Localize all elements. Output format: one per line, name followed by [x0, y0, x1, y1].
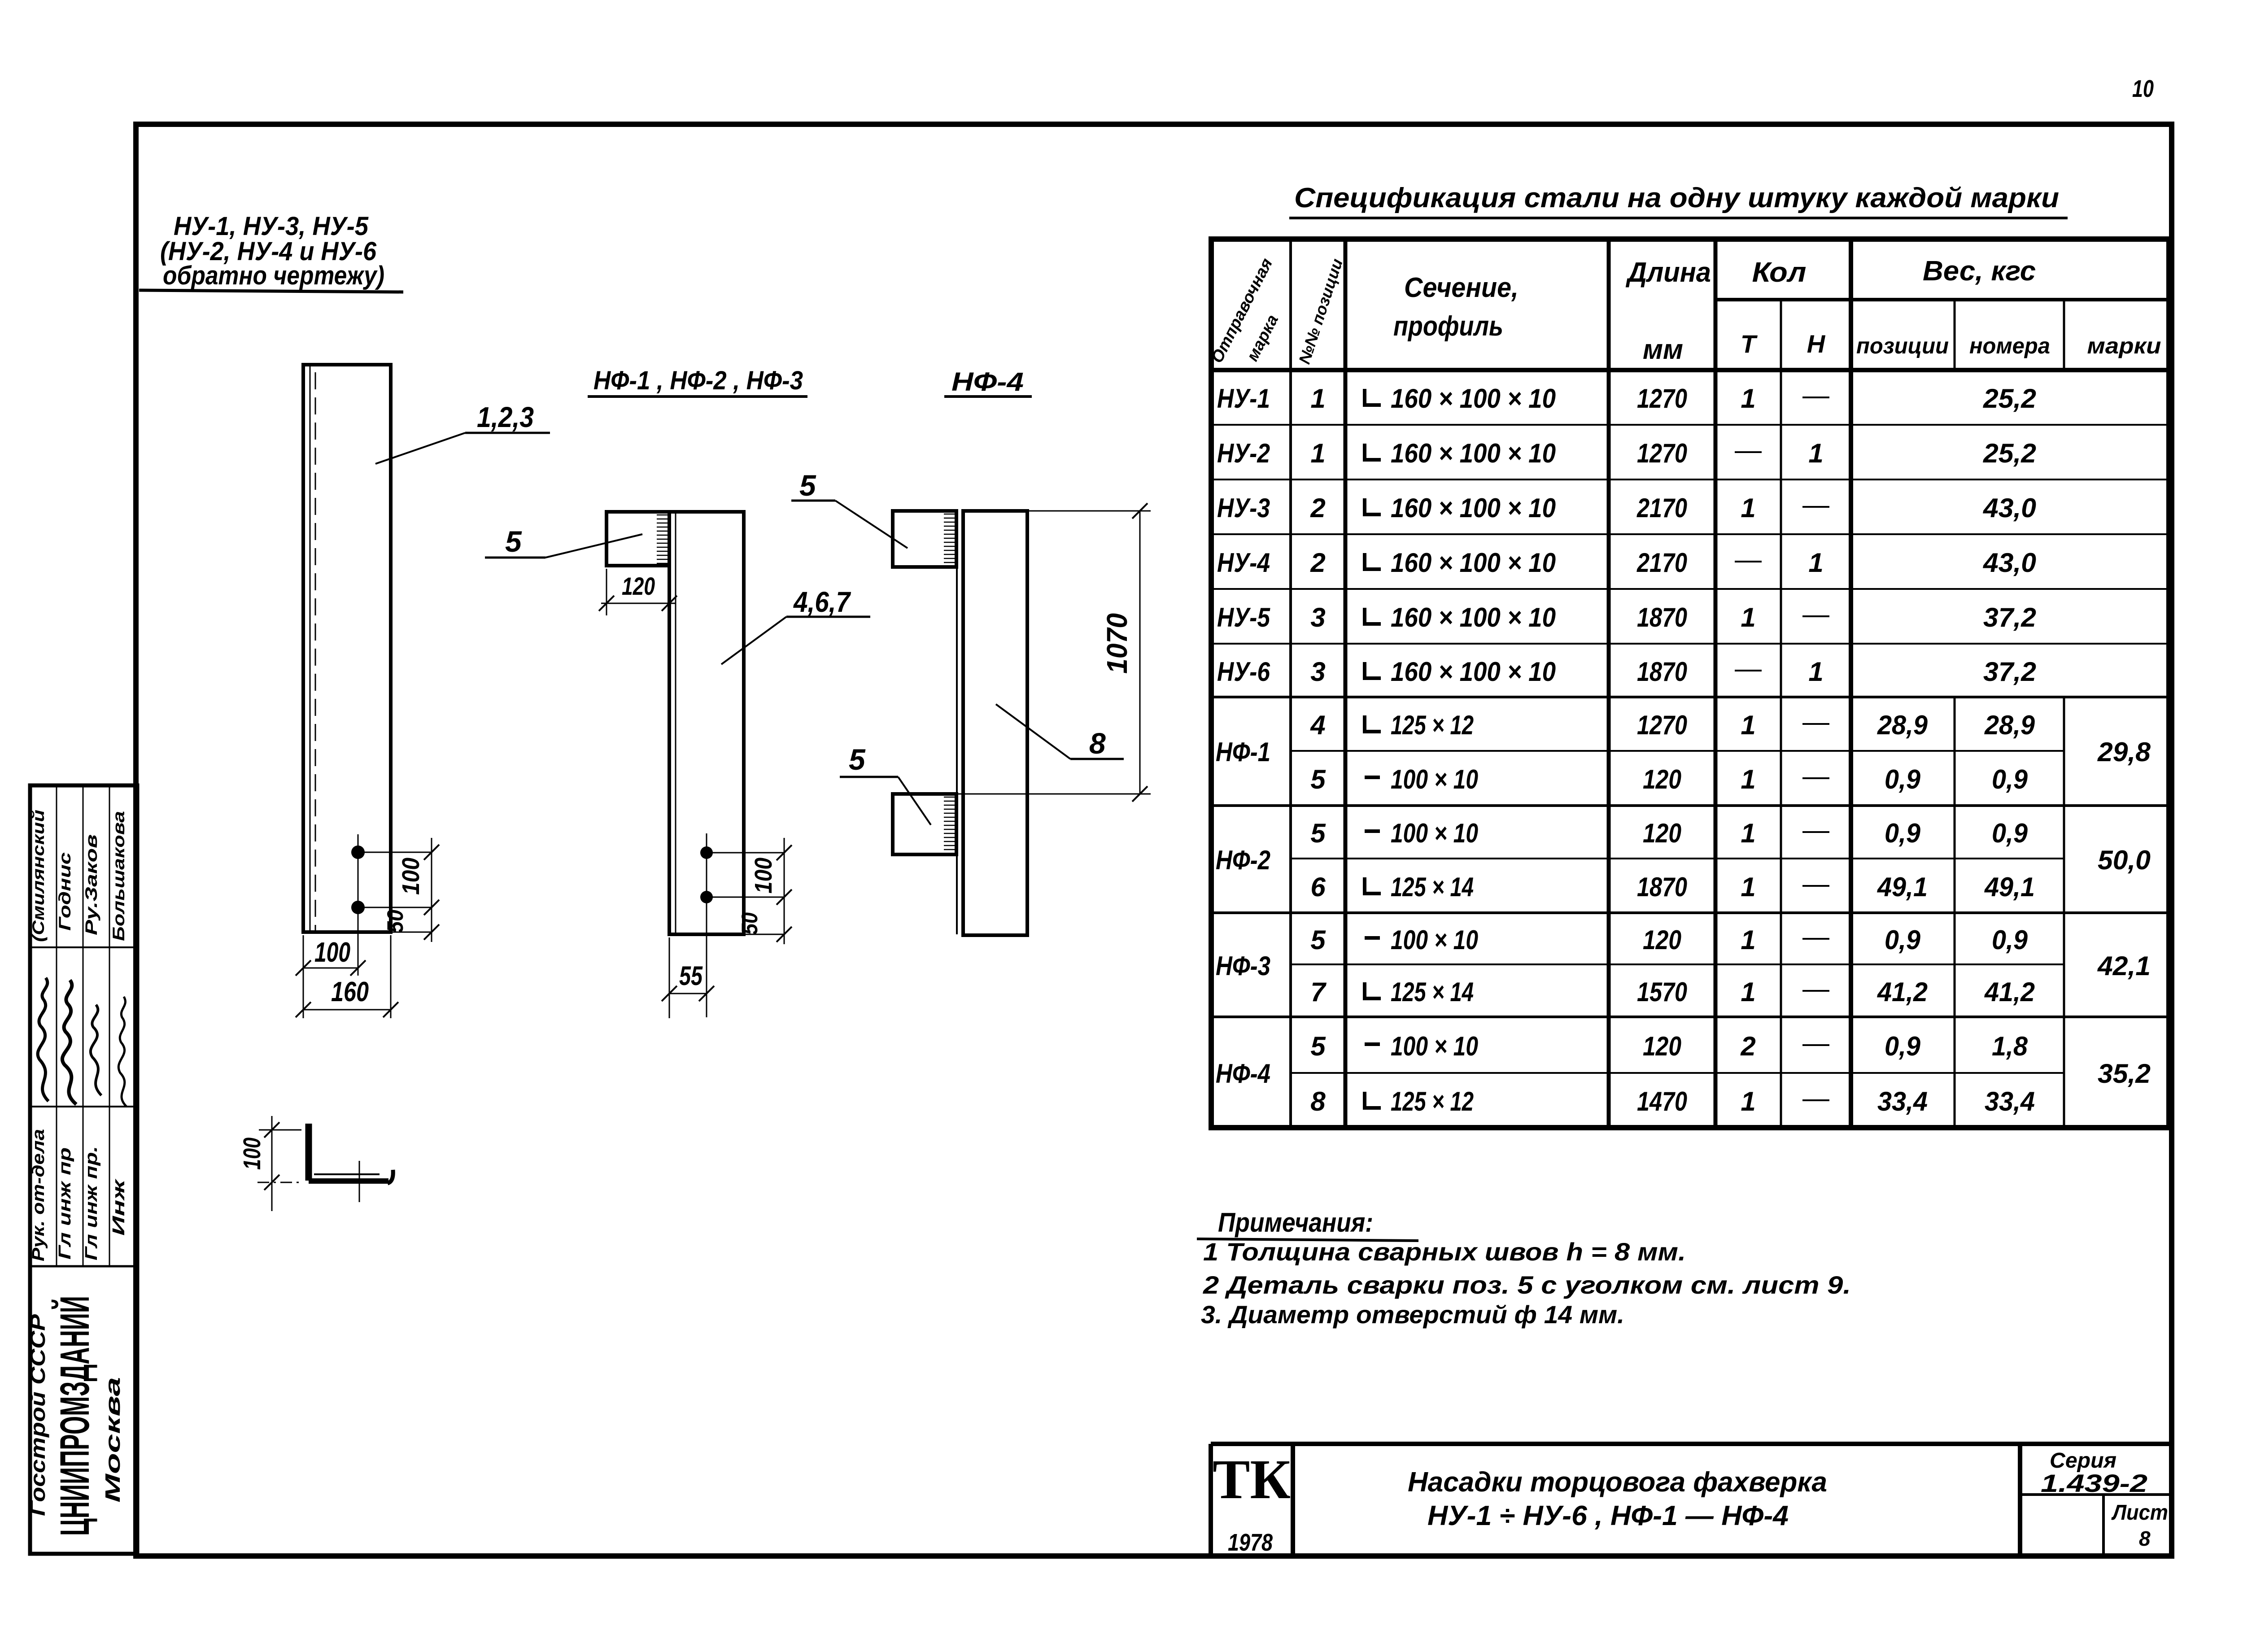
svg-text:2170: 2170 [1636, 548, 1687, 578]
svg-text:41,2: 41,2 [1877, 977, 1928, 1007]
svg-text:1870: 1870 [1637, 872, 1687, 902]
svg-text:50: 50 [383, 910, 408, 933]
svg-text:позиции: позиции [1856, 333, 1949, 358]
svg-text:1 Толщина сварных швов h: 1 Толщина сварных швов h = 8 мм. [1203, 1238, 1686, 1266]
svg-text:Длина: Длина [1625, 257, 1711, 288]
svg-text:НУ-2: НУ-2 [1217, 438, 1270, 468]
svg-text:49,1: 49,1 [1877, 872, 1928, 902]
svg-text:2170: 2170 [1636, 493, 1687, 523]
svg-text:125 × 14: 125 × 14 [1391, 872, 1474, 902]
svg-text:100: 100 [314, 937, 350, 968]
svg-text:1978: 1978 [1228, 1529, 1273, 1556]
svg-text:1870: 1870 [1637, 657, 1687, 687]
svg-text:Ру.Заков: Ру.Заков [82, 834, 100, 935]
svg-text:Примечания:: Примечания: [1218, 1207, 1373, 1238]
svg-text:Госстрой СССР: Госстрой СССР [26, 1314, 49, 1516]
svg-text:0,9: 0,9 [1992, 764, 2028, 794]
svg-text:НУ-6: НУ-6 [1217, 657, 1270, 687]
svg-text:0,9: 0,9 [1885, 818, 1921, 848]
svg-text:100: 100 [397, 858, 424, 895]
svg-text:33,4: 33,4 [1877, 1086, 1928, 1116]
svg-text:29,8: 29,8 [2097, 737, 2151, 767]
svg-text:5: 5 [505, 525, 522, 558]
svg-text:1070: 1070 [1101, 613, 1133, 674]
svg-text:мм: мм [1643, 334, 1683, 365]
svg-text:4,6,7: 4,6,7 [793, 586, 851, 618]
svg-text:1: 1 [1741, 384, 1755, 414]
svg-text:Сечение,: Сечение, [1404, 272, 1519, 303]
svg-text:41,2: 41,2 [1984, 977, 2035, 1007]
svg-text:160 × 100 × 10: 160 × 100 × 10 [1391, 438, 1556, 468]
svg-text:НУ-1 ÷ НУ-6 , НФ-1 — НФ-4: НУ-1 ÷ НУ-6 , НФ-1 — НФ-4 [1427, 1500, 1789, 1531]
svg-text:1: 1 [1741, 602, 1755, 632]
svg-text:100 × 10: 100 × 10 [1391, 925, 1478, 955]
svg-text:Гл инж пр.: Гл инж пр. [82, 1146, 101, 1260]
svg-text:55: 55 [679, 961, 703, 991]
svg-text:5: 5 [1310, 818, 1326, 848]
svg-text:1: 1 [1741, 1086, 1755, 1116]
svg-text:125 × 12: 125 × 12 [1391, 1086, 1474, 1116]
svg-text:120: 120 [1643, 764, 1681, 794]
svg-text:7: 7 [1310, 977, 1327, 1007]
svg-text:Годнис: Годнис [56, 852, 74, 931]
svg-text:Спецификация стали на одну: Спецификация стали на одну штуку каждой … [1294, 183, 2059, 214]
svg-text:(Смилянский: (Смилянский [29, 810, 48, 942]
svg-text:100 × 10: 100 × 10 [1391, 818, 1478, 848]
svg-text:160 × 100 × 10: 160 × 100 × 10 [1391, 657, 1556, 687]
svg-text:160 × 100 × 10: 160 × 100 × 10 [1391, 548, 1556, 578]
svg-text:6: 6 [1310, 872, 1326, 902]
svg-text:5: 5 [849, 743, 866, 776]
svg-text:1: 1 [1310, 438, 1325, 468]
svg-text:Москва: Москва [101, 1377, 124, 1503]
svg-text:50: 50 [737, 912, 762, 935]
svg-text:120: 120 [1643, 925, 1681, 955]
svg-text:1270: 1270 [1637, 438, 1687, 468]
svg-text:НФ-4: НФ-4 [1216, 1059, 1270, 1089]
svg-text:Н: Н [1807, 330, 1826, 358]
svg-text:3: 3 [1310, 657, 1325, 687]
svg-text:5: 5 [1310, 1031, 1326, 1061]
svg-text:Вес, кгс: Вес, кгс [1923, 256, 2036, 287]
svg-text:0,9: 0,9 [1992, 818, 2028, 848]
svg-text:НФ-4: НФ-4 [951, 367, 1024, 397]
svg-text:1,8: 1,8 [1992, 1031, 2028, 1061]
svg-text:номера: номера [1969, 333, 2050, 358]
svg-text:НУ-3: НУ-3 [1217, 493, 1270, 523]
svg-text:5: 5 [1310, 764, 1326, 794]
svg-text:33,4: 33,4 [1985, 1086, 2035, 1116]
svg-text:25,2: 25,2 [1983, 438, 2036, 468]
svg-text:42,1: 42,1 [2097, 951, 2151, 981]
svg-text:0,9: 0,9 [1885, 925, 1921, 955]
svg-text:1: 1 [1741, 764, 1755, 794]
svg-text:1: 1 [1741, 710, 1755, 740]
svg-text:1.439-2: 1.439-2 [2041, 1469, 2147, 1497]
svg-text:8: 8 [1089, 727, 1106, 760]
svg-text:ЦНИИПРОМЗДАНИЙ: ЦНИИПРОМЗДАНИЙ [51, 1296, 98, 1536]
svg-text:1270: 1270 [1637, 710, 1687, 740]
svg-text:Большакова: Большакова [109, 811, 128, 941]
svg-text:профиль: профиль [1393, 311, 1503, 342]
svg-text:50,0: 50,0 [2098, 845, 2151, 875]
svg-text:НУ-5: НУ-5 [1217, 602, 1270, 632]
svg-text:49,1: 49,1 [1984, 872, 2035, 902]
svg-text:10: 10 [2132, 75, 2154, 102]
svg-text:3. Диаметр отверстий ф 14: 3. Диаметр отверстий ф 14 мм. [1201, 1300, 1624, 1329]
svg-text:0,9: 0,9 [1885, 1031, 1921, 1061]
svg-text:1870: 1870 [1637, 602, 1687, 632]
svg-text:8: 8 [1310, 1086, 1326, 1116]
svg-text:8: 8 [2139, 1527, 2151, 1550]
svg-text:160 × 100 × 10: 160 × 100 × 10 [1391, 384, 1556, 414]
svg-text:1: 1 [1741, 925, 1755, 955]
svg-text:НУ-4: НУ-4 [1217, 548, 1270, 578]
svg-text:1,2,3: 1,2,3 [477, 401, 534, 433]
svg-text:43,0: 43,0 [1983, 493, 2036, 523]
svg-text:1: 1 [1741, 872, 1755, 902]
svg-text:100: 100 [750, 858, 777, 894]
svg-text:100: 100 [239, 1138, 266, 1170]
svg-text:5: 5 [799, 469, 816, 502]
svg-text:НФ-1 , НФ-2 , НФ-3: НФ-1 , НФ-2 , НФ-3 [593, 366, 803, 395]
svg-text:28,9: 28,9 [1877, 710, 1928, 740]
svg-text:28,9: 28,9 [1984, 710, 2035, 740]
svg-text:1570: 1570 [1637, 977, 1687, 1007]
svg-text:2: 2 [1310, 493, 1325, 523]
svg-text:43,0: 43,0 [1983, 548, 2036, 578]
svg-text:НФ-2: НФ-2 [1216, 845, 1270, 875]
svg-text:100 × 10: 100 × 10 [1391, 1031, 1478, 1061]
svg-text:1: 1 [1808, 548, 1823, 578]
svg-text:Насадки торцовога фахверка: Насадки торцовога фахверка [1408, 1467, 1827, 1498]
svg-text:0,9: 0,9 [1885, 764, 1921, 794]
svg-text:160 × 100 × 10: 160 × 100 × 10 [1391, 602, 1556, 632]
svg-text:ТК: ТК [1213, 1449, 1291, 1511]
svg-text:1470: 1470 [1637, 1086, 1687, 1116]
svg-text:0,9: 0,9 [1992, 925, 2028, 955]
svg-text:Гл инж пр: Гл инж пр [56, 1147, 74, 1260]
svg-text:35,2: 35,2 [2098, 1059, 2151, 1089]
svg-text:125 × 12: 125 × 12 [1391, 710, 1474, 740]
svg-text:1: 1 [1808, 657, 1823, 687]
svg-text:1: 1 [1741, 493, 1755, 523]
svg-text:обратно чертежу): обратно чертежу) [163, 261, 384, 290]
svg-text:Лист: Лист [2111, 1501, 2168, 1525]
svg-text:4: 4 [1310, 710, 1325, 740]
svg-text:3: 3 [1310, 602, 1325, 632]
svg-text:2: 2 [1310, 548, 1325, 578]
svg-text:2 Деталь сварки поз. 5 с: 2 Деталь сварки поз. 5 с уголком см. лис… [1203, 1271, 1851, 1299]
svg-text:НУ-1: НУ-1 [1217, 384, 1270, 414]
svg-text:Кол: Кол [1752, 257, 1807, 288]
svg-text:120: 120 [622, 572, 655, 600]
svg-text:120: 120 [1643, 818, 1681, 848]
svg-text:125 × 14: 125 × 14 [1391, 977, 1474, 1007]
svg-text:1: 1 [1310, 384, 1325, 414]
svg-text:2: 2 [1740, 1031, 1755, 1061]
svg-text:1: 1 [1808, 438, 1823, 468]
svg-text:160: 160 [331, 976, 369, 1007]
svg-text:Инж: Инж [109, 1178, 128, 1236]
svg-text:марки: марки [2087, 333, 2161, 358]
svg-text:Т: Т [1741, 330, 1758, 358]
svg-text:1270: 1270 [1637, 384, 1687, 414]
svg-text:37,2: 37,2 [1983, 657, 2036, 687]
svg-text:5: 5 [1310, 925, 1326, 955]
svg-text:120: 120 [1643, 1031, 1681, 1061]
svg-text:160 × 100 × 10: 160 × 100 × 10 [1391, 493, 1556, 523]
svg-text:1: 1 [1741, 818, 1755, 848]
svg-text:Рук. от-дела: Рук. от-дела [29, 1129, 48, 1261]
svg-text:37,2: 37,2 [1983, 602, 2036, 632]
svg-text:100 × 10: 100 × 10 [1391, 764, 1478, 794]
svg-text:1: 1 [1741, 977, 1755, 1007]
svg-text:НФ-1: НФ-1 [1216, 737, 1270, 767]
svg-text:25,2: 25,2 [1983, 384, 2036, 414]
svg-text:НФ-3: НФ-3 [1216, 951, 1270, 981]
